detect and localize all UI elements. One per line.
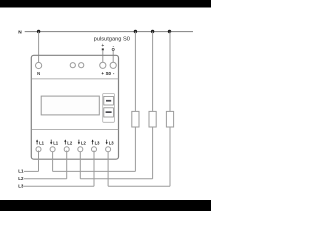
LCD display [41,96,99,115]
button MODE [104,96,114,105]
svg-text:L1: L1 [18,169,24,174]
wire up to terminal up-L1 [38,151,40,172]
meter upper separator line [31,78,118,80]
bottom letterbox bar [0,200,211,211]
label arrow-down L3 terminal [106,140,108,144]
terminal middle circle 1 [70,63,75,68]
wire load 3 down to bend [169,127,171,186]
junction dot on N bus above load 3 [168,30,171,33]
svg-text:pulsutgang S0: pulsutgang S0 [94,37,130,43]
button SELECT [104,108,114,117]
svg-text:N: N [18,29,22,35]
wire S0 plus stub [102,50,104,63]
top letterbox bar [0,0,211,8]
terminal S0 minus circle [110,62,116,68]
svg-text:L3: L3 [109,140,115,145]
wire N bus down to load 2 [152,32,154,112]
label arrow-up L3 terminal [92,140,94,144]
terminal middle circle 2 [79,63,84,68]
S0 plus stub terminal square [102,48,104,50]
terminal up-L2 circle [64,147,69,152]
wire load 2 down to bend [152,127,154,179]
wire N bus down to load 1 [134,32,136,112]
S0 minus stub terminal open circle [112,48,114,50]
terminal up-L1 circle [36,147,41,152]
buttons container [103,94,115,123]
svg-text:L3: L3 [18,184,24,189]
terminal down-L3 circle [106,147,111,152]
svg-text:L3: L3 [95,140,101,145]
wire L1 feed [24,170,39,172]
wire from N bus down to meter N terminal [38,32,40,63]
junction dot on N bus above meter N terminal [37,30,40,33]
load 1 box [132,111,139,127]
svg-text:L1: L1 [53,140,59,145]
wire down-L3 to load 3 [108,185,170,187]
load 2 box [149,111,156,127]
wire N bus horizontal [25,31,193,33]
wire N bus down to load 3 [169,32,171,112]
load 3 box [166,111,173,127]
svg-text:+: + [101,71,104,76]
meter lower separator line [31,128,118,130]
wire down-L1 to load 1 [53,170,136,172]
svg-text:L2: L2 [18,176,24,181]
label arrow-down L1 terminal [50,140,52,144]
svg-text:L1: L1 [39,140,45,145]
svg-text:L2: L2 [67,140,73,145]
label arrow-down L2 terminal [78,140,80,144]
terminal up-L3 circle [92,147,97,152]
label arrow-up L1 terminal [36,140,38,144]
wire load 1 down to bend [134,127,136,171]
wire down-L3 vertical [107,152,109,186]
svg-text:S0: S0 [106,71,112,76]
terminal down-L1 circle [50,147,55,152]
wire L3 feed [24,185,94,187]
terminal S0 plus circle [100,62,106,68]
wire S0 minus stub [112,51,114,63]
svg-text:+: + [101,43,104,49]
wire L2 feed [24,178,67,180]
wire up to terminal up-L3 [93,151,95,187]
label arrow-up L2 terminal [64,140,66,144]
wire down-L2 vertical [79,152,81,179]
svg-text:L2: L2 [81,140,87,145]
wire down-L2 to load 2 [80,178,152,180]
meter body outline [31,55,118,159]
svg-text:N: N [37,71,40,76]
junction dot on N bus above load 1 [134,30,137,33]
terminal N circle [36,62,42,68]
junction dot on N bus above load 2 [151,30,154,33]
wire down-L1 vertical [52,152,54,172]
terminal down-L2 circle [78,147,83,152]
wire up to terminal up-L2 [66,151,68,179]
